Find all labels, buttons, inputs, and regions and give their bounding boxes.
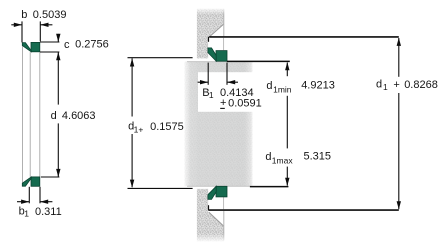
right view: housing bore line top: [209, 36, 399, 38]
dimension c: upper stub and arrow: [57, 34, 59, 42]
dimension b1: right extension line: [39, 187, 41, 204]
right view: housing bottom fade: [195, 234, 225, 243]
svg-text:d: d: [265, 151, 271, 163]
svg-text:4.6063: 4.6063: [62, 110, 96, 122]
svg-text:1: 1: [383, 82, 388, 92]
svg-text:d: d: [376, 78, 382, 90]
right view: shaft block bottom edge: [187, 185, 250, 187]
dimension d1+: vertical line segments: [131, 58, 133, 116]
right view: shaft block top edge: [187, 61, 227, 63]
dimension b: left extension line: [21, 21, 23, 42]
left view: seal silhouette line middle: [29, 52, 31, 177]
left view: seal silhouette line inner: [39, 52, 41, 177]
right view: housing bottom right edge: [223, 211, 225, 241]
dimension d: vertical line lower segment: [57, 123, 59, 177]
dimension d1+: top leader: [128, 57, 193, 59]
svg-text:d: d: [266, 80, 272, 92]
dimension b: right extension line: [39, 21, 41, 41]
svg-text:1min: 1min: [273, 85, 292, 95]
svg-text:b: b: [21, 9, 27, 21]
left view: seal cross-section bottom lip: [22, 177, 31, 186]
right view: seal top lip: [208, 48, 216, 61]
svg-text:c: c: [64, 39, 70, 51]
svg-text:1max: 1max: [272, 156, 294, 166]
dimension b1: right stub and arrow: [40, 201, 52, 203]
dimension d: vertical line upper segment: [57, 52, 59, 105]
dimension B1: right extension line: [226, 63, 228, 85]
right view: housing top chamfer edge: [209, 24, 224, 37]
dimension d1: bottom arrow (down): [397, 201, 401, 209]
dimension d1min/d1max: vertical line segments: [286, 63, 288, 77]
dimension b: right stub and arrow: [40, 24, 52, 26]
svg-text:0.8268: 0.8268: [404, 79, 438, 91]
right view: white patch behind B1 annotation: [198, 72, 263, 112]
dimension d1: vertical line segments: [398, 38, 400, 77]
right view: housing top step face line: [208, 37, 210, 42]
right view: housing section bottom (stippled): [197, 189, 224, 242]
left view: seal cross-section top body: [31, 42, 40, 51]
svg-text:+: +: [220, 97, 226, 109]
dimension c: upper leader line: [40, 41, 59, 43]
svg-text:4.9213: 4.9213: [301, 79, 335, 91]
dimension d1+: bottom leader: [128, 187, 193, 189]
dimension d1+: bottom arrow (down): [130, 180, 134, 188]
svg-text:0.5039: 0.5039: [33, 9, 67, 21]
dimension d1+: top arrow (up): [130, 58, 134, 66]
svg-text:0.311: 0.311: [35, 206, 62, 218]
right view: housing bottom step face line: [208, 205, 210, 210]
right view: housing bottom chamfer edge: [209, 212, 224, 226]
dimension b1: left stub and arrow: [17, 201, 29, 203]
dimension d1min: top arrow (up): [285, 62, 289, 70]
right view: seal bottom lip: [208, 186, 216, 199]
dimension B1: right stub and arrow: [227, 81, 238, 83]
right view: housing top fade: [195, 7, 225, 15]
left view: seal cross-section top lip: [22, 43, 31, 52]
dimension d: leader line: [41, 176, 60, 178]
svg-text:1: 1: [209, 90, 214, 100]
svg-text:0.1575: 0.1575: [150, 121, 184, 133]
right view: shaft surface line top: [227, 60, 290, 62]
left view: seal cross-section bottom body: [31, 177, 40, 186]
dimension b: left stub and arrow: [11, 24, 22, 26]
svg-text:1+: 1+: [134, 124, 144, 134]
svg-text:d: d: [51, 110, 57, 122]
svg-text:0.0591: 0.0591: [228, 98, 262, 110]
right view: seal bottom body: [216, 186, 227, 197]
right view: seal top body: [216, 51, 227, 62]
right view: housing bore line bottom: [209, 209, 399, 211]
svg-text:1: 1: [24, 208, 29, 218]
dimension c: lower arrow (points up): [56, 52, 60, 60]
svg-text:+: +: [393, 79, 399, 91]
right view: housing section top (stippled): [197, 9, 224, 59]
right view: groove silhouette line top: [223, 38, 225, 50]
dimension d1: top arrow (up): [397, 38, 401, 46]
svg-text:5.315: 5.315: [304, 150, 332, 162]
right view: groove silhouette line bottom: [223, 197, 225, 209]
right view: d1max leader line bottom: [250, 186, 289, 188]
right view: shaft block (gray): [185, 62, 253, 187]
dimension B1: left extension line: [207, 63, 209, 85]
svg-text:0.2756: 0.2756: [75, 39, 109, 51]
right view: housing top right edge: [223, 9, 225, 36]
left view: seal outline silhouette line outer: [22, 46, 24, 183]
dimension d: bottom arrow (points down): [56, 169, 60, 177]
dimension d1max: bottom arrow (down): [285, 178, 289, 186]
dimension B1: left stub and arrow: [198, 81, 209, 83]
dimension c: lower leader line: [40, 51, 59, 53]
dimension b1: left extension line: [28, 187, 30, 204]
